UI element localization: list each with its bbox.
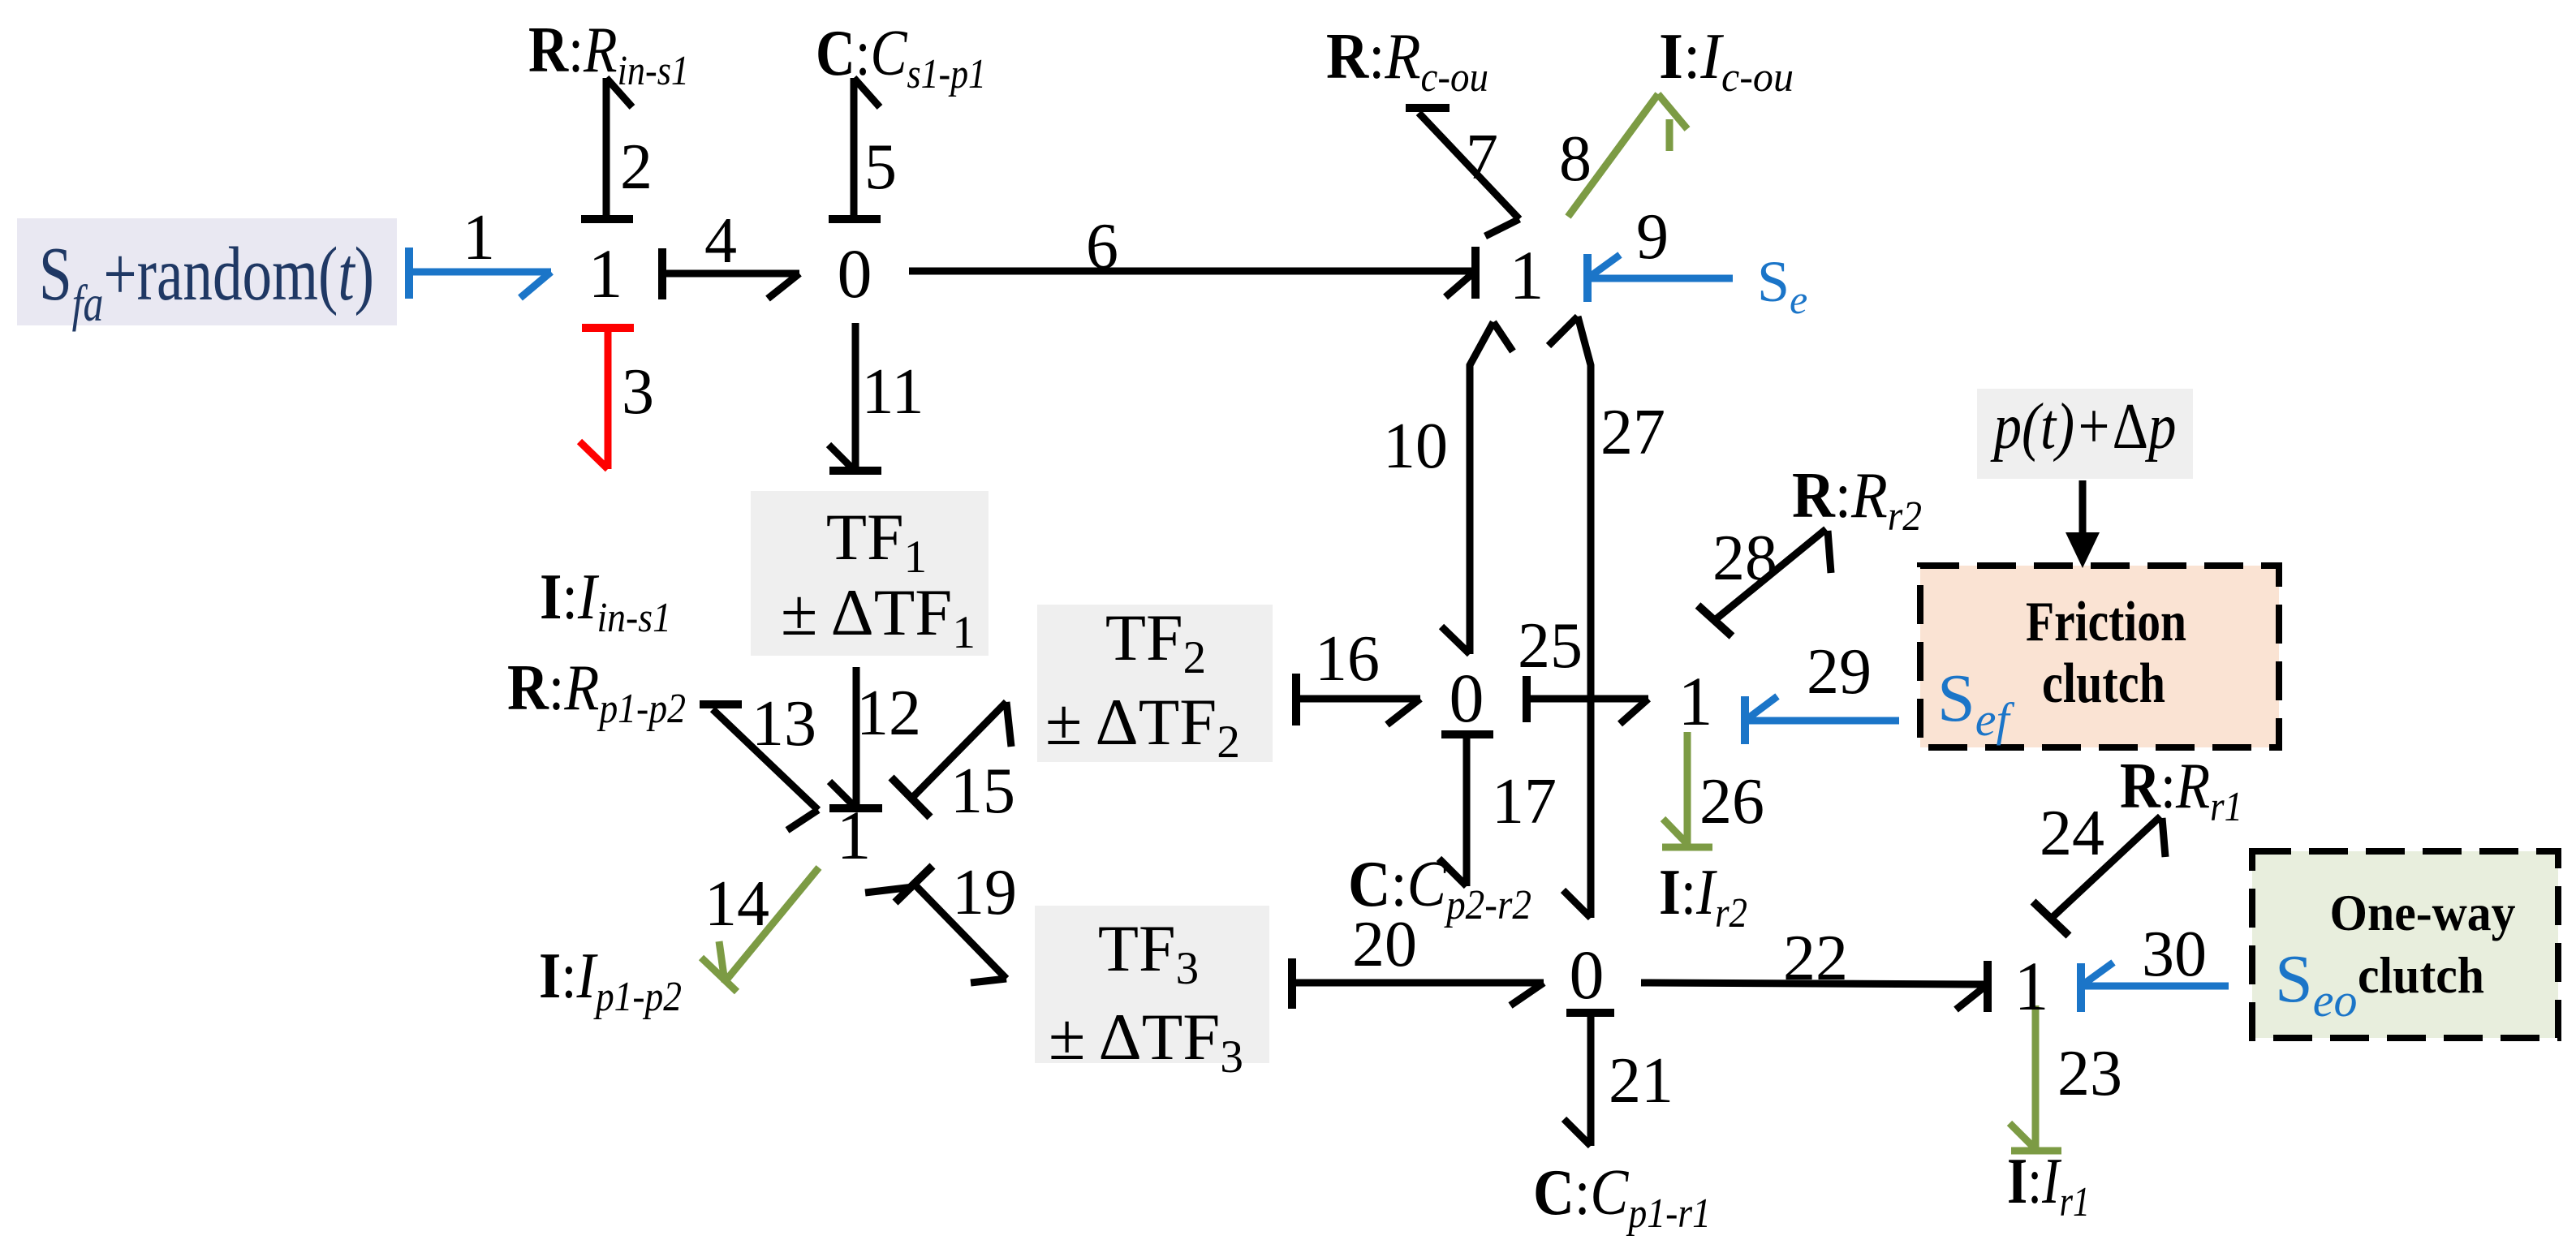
svg-text:p(t)+Δp: p(t)+Δp xyxy=(1990,391,2176,463)
svg-text:27: 27 xyxy=(1600,397,1665,468)
svg-text:16: 16 xyxy=(1315,623,1380,695)
svg-text:Se: Se xyxy=(1757,249,1807,322)
svg-text:One-way: One-way xyxy=(2330,884,2516,941)
svg-text:I:Ip1-p2: I:Ip1-p2 xyxy=(539,941,682,1020)
svg-text:I:Ic-ou: I:Ic-ou xyxy=(1659,21,1794,101)
svg-text:28: 28 xyxy=(1712,523,1777,594)
svg-text:7: 7 xyxy=(1466,122,1498,193)
svg-text:R:Rin-s1: R:Rin-s1 xyxy=(528,15,689,94)
svg-text:4: 4 xyxy=(704,205,737,277)
svg-text:11: 11 xyxy=(861,356,924,428)
svg-text:1: 1 xyxy=(2014,947,2049,1025)
svg-text:C:Cs1-p1: C:Cs1-p1 xyxy=(816,18,986,97)
svg-text:23: 23 xyxy=(2057,1038,2122,1109)
svg-text:I:Ir1: I:Ir1 xyxy=(2007,1146,2090,1225)
svg-text:0: 0 xyxy=(1570,936,1605,1014)
svg-text:Friction: Friction xyxy=(2026,591,2186,653)
svg-text:1: 1 xyxy=(837,796,872,874)
svg-text:2: 2 xyxy=(620,131,653,203)
svg-text:3: 3 xyxy=(622,356,654,428)
svg-text:25: 25 xyxy=(1518,610,1583,682)
svg-text:C:Cp2-r2: C:Cp2-r2 xyxy=(1348,849,1531,928)
svg-text:12: 12 xyxy=(856,678,921,749)
svg-text:clutch: clutch xyxy=(2358,946,2484,1004)
svg-text:R:Rc-ou: R:Rc-ou xyxy=(1326,21,1488,101)
svg-text:10: 10 xyxy=(1383,411,1448,482)
svg-text:24: 24 xyxy=(2040,798,2104,869)
svg-text:21: 21 xyxy=(1609,1045,1674,1117)
svg-text:R:Rp1-p2: R:Rp1-p2 xyxy=(507,652,686,732)
svg-text:22: 22 xyxy=(1783,923,1848,994)
svg-text:26: 26 xyxy=(1699,766,1764,837)
svg-text:R:Rr2: R:Rr2 xyxy=(1792,460,1922,540)
svg-text:0: 0 xyxy=(838,235,872,312)
svg-text:0: 0 xyxy=(1450,659,1484,737)
svg-text:9: 9 xyxy=(1636,201,1669,273)
svg-text:8: 8 xyxy=(1559,123,1592,195)
svg-text:± ΔTF2: ± ΔTF2 xyxy=(1045,685,1240,768)
svg-text:clutch: clutch xyxy=(2042,652,2165,715)
svg-text:± ΔTF3: ± ΔTF3 xyxy=(1049,1000,1243,1083)
svg-text:30: 30 xyxy=(2142,919,2207,990)
svg-text:I:Iin-s1: I:Iin-s1 xyxy=(540,562,671,641)
svg-text:C:Cp1-r1: C:Cp1-r1 xyxy=(1533,1157,1711,1237)
svg-text:1: 1 xyxy=(1510,236,1544,314)
svg-text:1: 1 xyxy=(463,202,495,273)
svg-text:5: 5 xyxy=(864,131,897,203)
svg-text:6: 6 xyxy=(1086,211,1118,282)
svg-text:17: 17 xyxy=(1492,766,1557,837)
svg-text:19: 19 xyxy=(952,857,1017,928)
svg-text:14: 14 xyxy=(704,868,769,940)
svg-text:15: 15 xyxy=(950,756,1015,827)
svg-text:1: 1 xyxy=(588,235,623,312)
svg-text:I:Ir2: I:Ir2 xyxy=(1659,857,1747,936)
svg-text:13: 13 xyxy=(752,688,816,760)
svg-text:29: 29 xyxy=(1807,636,1872,708)
svg-text:± ΔTF1: ± ΔTF1 xyxy=(781,575,976,658)
svg-text:R:Rr1: R:Rr1 xyxy=(2120,751,2242,830)
svg-text:1: 1 xyxy=(1678,662,1713,740)
